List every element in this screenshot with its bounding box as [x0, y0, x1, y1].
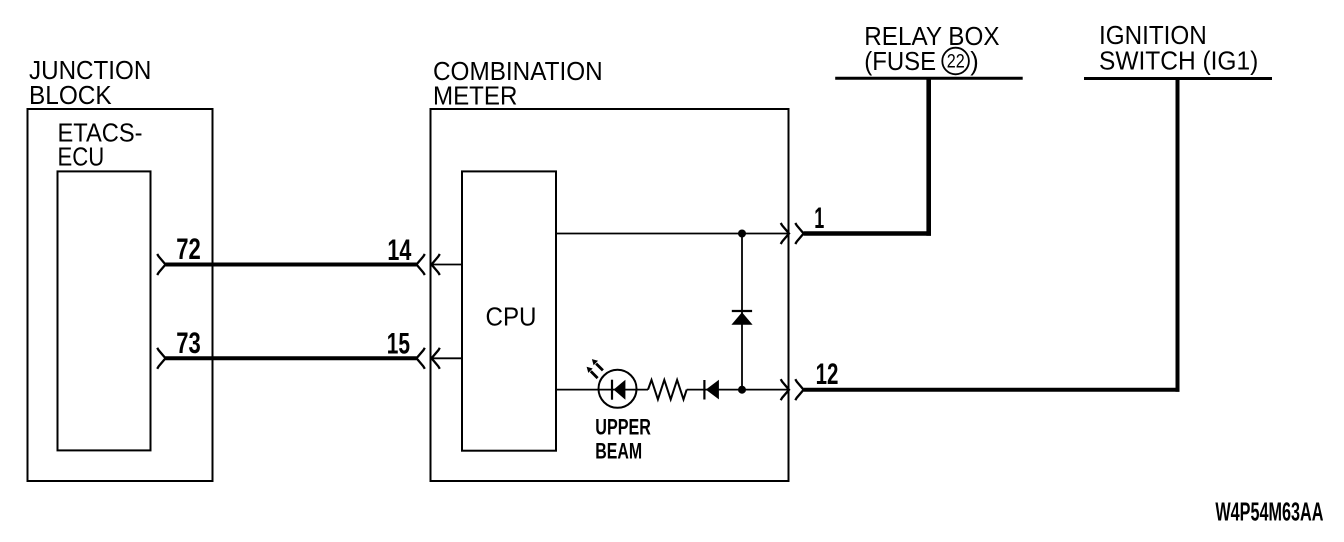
svg-text:RELAY BOX: RELAY BOX [864, 23, 999, 51]
ETACS-ECU box U1 [58, 171, 151, 450]
svg-text:BEAM: BEAM [595, 438, 642, 463]
connector chevrons pin 12 [781, 379, 789, 400]
combination meter box [431, 109, 789, 481]
LED light ray arrows [587, 359, 603, 378]
wire 72 (thick) [166, 263, 417, 267]
relay box bus bar [835, 77, 1023, 80]
ignition switch label [1099, 22, 1258, 76]
svg-text:14: 14 [387, 234, 411, 267]
wire resistor to node (right segment) [687, 389, 789, 391]
svg-text:72: 72 [176, 233, 201, 266]
junction block label [29, 57, 151, 110]
connector chevrons pin 1 [781, 223, 789, 244]
fuse 22 circle [942, 48, 969, 75]
node junction dot bottom [738, 386, 746, 394]
svg-text:ECU: ECU [58, 143, 105, 171]
diode D2 (horizontal, cathode left) [704, 380, 719, 400]
wire pin14 to CPU [432, 264, 463, 266]
relay box label [864, 23, 999, 76]
CPU box U2 [462, 171, 556, 450]
connector chevron pin 72 [157, 254, 165, 275]
connector chevron pin 73 [157, 348, 165, 369]
UPPER BEAM label [595, 415, 651, 464]
wire relay box drop (thick vertical) [926, 78, 931, 236]
node junction dot top [738, 230, 746, 238]
wire vertical link between nodes [741, 234, 743, 390]
svg-text:(FUSE: (FUSE [864, 48, 936, 76]
svg-text:73: 73 [176, 327, 201, 360]
svg-text:CPU: CPU [486, 304, 537, 332]
svg-text:): ) [970, 48, 979, 76]
svg-text:IGNITION: IGNITION [1099, 22, 1207, 50]
svg-text:METER: METER [433, 83, 517, 111]
svg-text:SWITCH (IG1): SWITCH (IG1) [1099, 47, 1258, 75]
svg-text:W4P54M63AA: W4P54M63AA [1215, 498, 1323, 526]
wire pin15 to CPU [432, 357, 463, 359]
wire 73 (thick) [166, 356, 417, 360]
svg-text:UPPER: UPPER [595, 415, 651, 440]
resistor R1 [648, 380, 687, 400]
wire CPU bottom output (left of resistor) [556, 389, 648, 391]
wire CPU top output [556, 233, 789, 235]
ETACS-ECU label [58, 119, 143, 171]
svg-text:1: 1 [814, 202, 824, 235]
connector chevrons pin 15 [417, 348, 425, 369]
wire 12 (thick) [804, 388, 1180, 392]
combination meter label [433, 58, 603, 111]
svg-text:BLOCK: BLOCK [29, 82, 112, 110]
svg-text:12: 12 [816, 358, 839, 391]
svg-text:JUNCTION: JUNCTION [29, 57, 151, 85]
junction block box [28, 109, 213, 481]
svg-text:22: 22 [947, 51, 965, 72]
connector chevrons pin 14 [417, 254, 425, 275]
wire 1 (thick) [804, 231, 931, 236]
LED indicator (upper beam) [599, 370, 637, 408]
wire ignition switch drop (thick vertical) [1176, 79, 1180, 392]
ignition switch bus bar [1084, 77, 1272, 80]
diode D1 (vertical, cathode up) [731, 311, 752, 325]
svg-text:15: 15 [387, 328, 410, 361]
